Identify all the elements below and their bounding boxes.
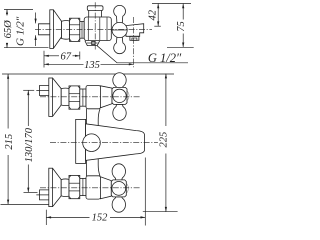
svg-text:152: 152 [92, 212, 109, 223]
svg-text:67: 67 [61, 52, 72, 63]
svg-text:G 1/2″: G 1/2″ [15, 16, 27, 46]
svg-text:130/170: 130/170 [24, 127, 35, 162]
svg-text:135: 135 [84, 60, 100, 71]
svg-text:225: 225 [159, 132, 170, 148]
svg-text:75: 75 [176, 21, 187, 32]
svg-text:65Ø: 65Ø [3, 20, 14, 39]
svg-text:G 1/2″: G 1/2″ [148, 51, 182, 65]
svg-text:215: 215 [4, 134, 15, 150]
svg-text:42: 42 [147, 9, 158, 20]
